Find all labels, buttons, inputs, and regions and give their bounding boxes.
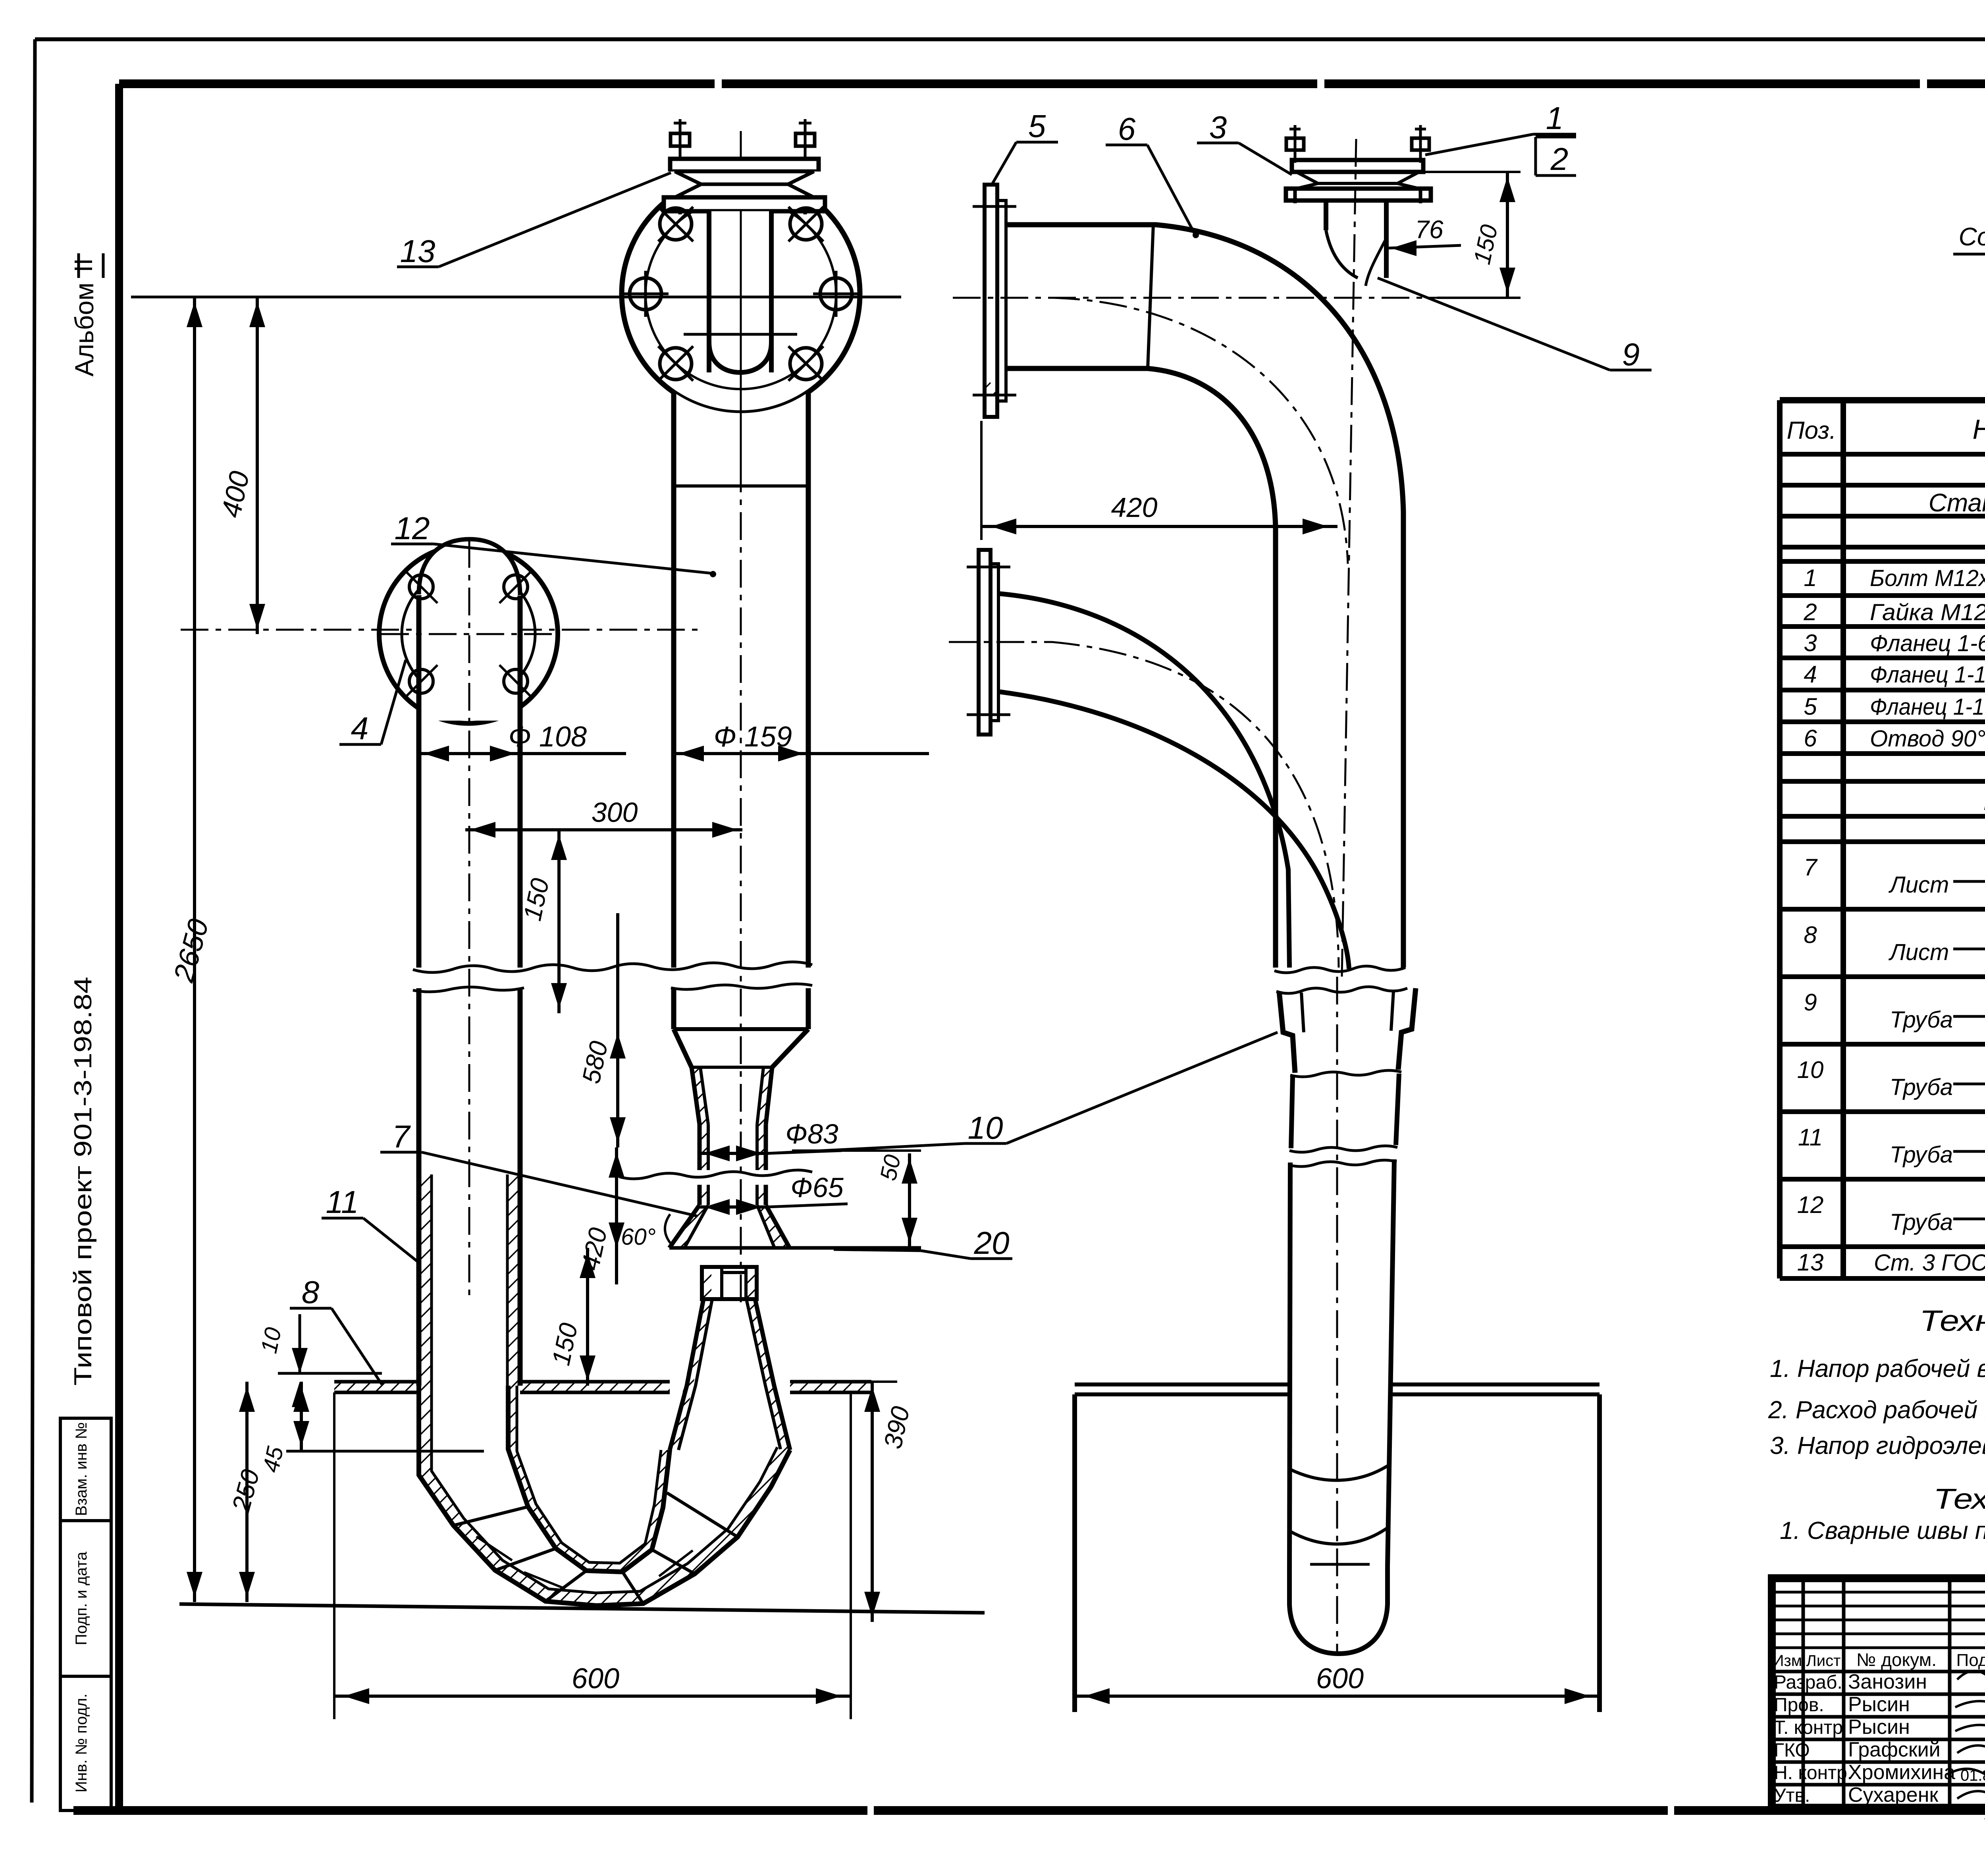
dim 76 xyxy=(1386,215,1461,256)
svg-text:Технические требования: Технические требования xyxy=(1933,1483,1985,1515)
svg-text:Изм: Изм xyxy=(1773,1652,1802,1670)
dim 10 plate thickness xyxy=(256,1314,382,1407)
front flange-4 disc xyxy=(379,539,560,723)
svg-text:Болт М12х 55.58.01. ГОСТ 7798-: Болт М12х 55.58.01. ГОСТ 7798- 70 xyxy=(1870,565,1985,591)
tech characteristics title xyxy=(1919,1304,1985,1337)
parts table header xyxy=(1787,401,1985,454)
front U-bend inner wall xyxy=(508,1386,670,1572)
svg-text:Материалы: Материалы xyxy=(1983,787,1985,816)
svg-text:600: 600 xyxy=(572,1663,619,1695)
front U-bend mitre seams xyxy=(453,1493,738,1604)
svg-text:76: 76 xyxy=(1415,215,1443,244)
svg-text:II: II xyxy=(69,258,98,272)
svg-text:11: 11 xyxy=(1798,1124,1823,1151)
dim 300 xyxy=(465,797,742,838)
front pipe break wavy xyxy=(413,962,812,992)
svg-text:Фланец 1-150-6 Ст25 ГОСТ 12820: Фланец 1-150-6 Ст25 ГОСТ 12820-80 xyxy=(1870,694,1985,720)
side joint wavy xyxy=(1274,966,1407,993)
leader 13 xyxy=(397,173,671,269)
side bend d108 inner xyxy=(998,692,1349,969)
side lower pipe xyxy=(1289,1074,1399,1566)
front view flange-4 centerline xyxy=(181,629,699,631)
svg-text:Подп.: Подп. xyxy=(1956,1650,1985,1670)
front nozzle throat lower xyxy=(700,1185,766,1205)
side lower pipe wavy break xyxy=(1289,1146,1397,1166)
side collar wavy bottom xyxy=(1290,1070,1401,1077)
side support plate xyxy=(1075,1384,1600,1394)
leader 3 xyxy=(1197,110,1292,175)
svg-text:Сопло: Сопло xyxy=(1959,222,1985,251)
svg-text:2. Расход рабочей воды, л/: 2. Расход рабочей воды, л/с xyxy=(1768,1396,1985,1424)
svg-text:10: 10 xyxy=(968,1110,1003,1145)
front nozzle break wavy xyxy=(619,1170,812,1179)
front pipe d159 walls xyxy=(674,391,808,1029)
svg-text:Стандартные изделия: Стандартные изделия xyxy=(1929,488,1985,517)
table row 13 xyxy=(1797,1246,1985,1276)
svg-text:Фланец 1-100-6 Ст25 ГОСТ12820-: Фланец 1-100-6 Ст25 ГОСТ12820-80 xyxy=(1870,662,1985,688)
svg-text:Техническая характеристика: Техническая характеристика xyxy=(1919,1304,1985,1337)
svg-text:10: 10 xyxy=(256,1325,286,1356)
tech req item 1 xyxy=(1780,1517,1985,1544)
nozzle detail label xyxy=(1953,222,1985,267)
svg-text:1. Сварные швы по ГОСТ 160: 1. Сварные швы по ГОСТ 16037- 80 xyxy=(1780,1517,1985,1544)
svg-text:6: 6 xyxy=(1804,725,1817,752)
svg-text:420: 420 xyxy=(1111,492,1158,523)
dim 600 side xyxy=(1075,1663,1600,1704)
svg-text:600: 600 xyxy=(1316,1663,1364,1695)
dim 45 xyxy=(258,1382,484,1475)
svg-text:13: 13 xyxy=(1797,1249,1824,1276)
svg-text:Труба: Труба xyxy=(1890,1074,1953,1100)
svg-text:Хромихина: Хромихина xyxy=(1848,1761,1955,1784)
svg-text:6: 6 xyxy=(1118,111,1136,147)
svg-text:3: 3 xyxy=(1209,110,1227,145)
svg-text:12: 12 xyxy=(395,511,430,546)
svg-text:Гайка М12-6Н. 5.01 ГОСТ 5915-: Гайка М12-6Н. 5.01 ГОСТ 5915-70 xyxy=(1870,600,1985,625)
dim 250 xyxy=(226,1382,265,1602)
dim 150 upper xyxy=(518,830,567,1013)
table section materials xyxy=(1971,787,1985,816)
tech char item 1 xyxy=(1770,1355,1985,1382)
dim 580 xyxy=(576,913,626,1147)
svg-text:Труба: Труба xyxy=(1890,1142,1953,1168)
side top flange pair xyxy=(1286,125,1431,203)
svg-text:2: 2 xyxy=(1803,599,1817,625)
svg-text:11: 11 xyxy=(326,1184,358,1220)
side flange-4 centerline xyxy=(949,641,1052,643)
tech requirements title xyxy=(1933,1483,1985,1515)
svg-text:Т. контр: Т. контр xyxy=(1774,1717,1843,1738)
dim f83 xyxy=(700,1118,842,1161)
leader 7 xyxy=(380,1119,698,1216)
leader 12 xyxy=(391,511,715,576)
svg-text:3: 3 xyxy=(1804,630,1817,656)
svg-text:Типовой проект 901-3-198.84: Типовой проект 901-3-198.84 xyxy=(69,977,97,1386)
svg-text:4: 4 xyxy=(1804,661,1817,688)
side pipe end arcs xyxy=(1289,1466,1388,1654)
leader 1 xyxy=(1425,100,1576,155)
title block left grid xyxy=(1772,1578,1985,1808)
front flange-4 bolts xyxy=(405,571,532,698)
svg-text:Лист: Лист xyxy=(1806,1652,1841,1670)
svg-text:Труба: Труба xyxy=(1890,1007,1953,1033)
front top flange pair bolts and plates xyxy=(664,119,825,214)
svg-text:12: 12 xyxy=(1797,1192,1824,1218)
side bend d108 outer xyxy=(998,594,1289,968)
side flange d100 xyxy=(967,550,1010,735)
dim f108 ext xyxy=(419,711,520,766)
svg-text:Подп. и дата: Подп. и дата xyxy=(73,1551,90,1645)
side bend d159 inner xyxy=(1006,368,1276,968)
front U-bend outer wall xyxy=(419,1386,790,1606)
front pipe liner hatch xyxy=(419,1174,520,1386)
side bend d159 outer xyxy=(1006,225,1403,968)
svg-text:8: 8 xyxy=(1804,922,1817,948)
table section standard xyxy=(1902,488,1985,517)
dim 2650 xyxy=(168,297,215,1602)
margin label project number xyxy=(69,977,97,1386)
svg-text:60°: 60° xyxy=(621,1224,656,1250)
leader 4 xyxy=(339,660,406,746)
svg-text:Занозин: Занозин xyxy=(1848,1670,1927,1693)
svg-text:Альбом: Альбом xyxy=(69,283,99,377)
side bend centerline arc xyxy=(1052,298,1348,564)
margin label Album II xyxy=(69,253,103,376)
front top reference line xyxy=(131,296,901,299)
svg-text:10: 10 xyxy=(1797,1057,1824,1083)
side bend seam xyxy=(1148,225,1153,368)
svg-text:1. Напор рабочей воды, МПа: 1. Напор рабочей воды, МПа xyxy=(1770,1355,1985,1382)
front flange disc xyxy=(622,175,860,413)
front pipe d108 walls xyxy=(419,595,520,1386)
dim 600 front xyxy=(334,1392,851,1719)
svg-text:Ф83: Ф83 xyxy=(785,1118,838,1149)
svg-text:Рысин: Рысин xyxy=(1848,1716,1910,1739)
margin stamp boxes xyxy=(60,1418,111,1810)
svg-text:50: 50 xyxy=(875,1153,906,1183)
dim 150 side xyxy=(1425,172,1521,298)
front ground baseline xyxy=(179,1604,985,1613)
svg-text:Взам. инв №: Взам. инв № xyxy=(73,1422,90,1516)
tech char item 2 xyxy=(1768,1396,1985,1424)
tech char item 3 xyxy=(1770,1432,1985,1460)
front nozzle flare 60deg xyxy=(669,1205,921,1248)
svg-text:Ст. 3 ГОСТ 380-71: Ст. 3 ГОСТ 380-71 xyxy=(1874,1250,1985,1276)
leader 11 xyxy=(322,1184,419,1263)
leader 20 front xyxy=(834,1225,1012,1261)
front reducer d159-d83 xyxy=(674,1029,808,1067)
front mixing chamber xyxy=(702,1267,757,1299)
leader 5 xyxy=(992,108,1058,183)
front nozzle pipe d83 xyxy=(692,1067,772,1170)
leader 8 xyxy=(290,1274,382,1384)
svg-text:8: 8 xyxy=(302,1274,320,1310)
dim 420 side xyxy=(981,421,1337,540)
svg-text:1: 1 xyxy=(1546,100,1564,136)
side centerline horizontal xyxy=(953,297,1445,299)
table standard rows xyxy=(1803,565,1985,752)
side collar 83x9 xyxy=(1279,988,1416,1073)
leader 10 front xyxy=(768,1032,1278,1153)
parts table grid xyxy=(1780,400,1985,1278)
svg-text:300: 300 xyxy=(592,797,638,828)
side pipe d76 inner arc xyxy=(1366,238,1386,286)
svg-text:Утв.: Утв. xyxy=(1774,1785,1810,1806)
side flange d150 xyxy=(973,185,1016,417)
svg-text:20: 20 xyxy=(974,1225,1010,1261)
svg-text:3. Напор гидроэлеватора, МПа: 3. Напор гидроэлеватора, МПа xyxy=(1770,1432,1985,1460)
svg-text:Поз.: Поз. xyxy=(1787,417,1837,444)
svg-text:Ф65: Ф65 xyxy=(790,1172,844,1203)
title block left text xyxy=(1773,1649,1985,1807)
side pit box xyxy=(1075,1394,1600,1712)
svg-text:ГКО: ГКО xyxy=(1774,1740,1810,1761)
front flange bolts xyxy=(622,207,859,381)
title block signatures xyxy=(1947,1671,1985,1823)
dim f159 xyxy=(674,721,929,762)
svg-text:Н. контр.: Н. контр. xyxy=(1774,1762,1852,1783)
leader 6 xyxy=(1106,111,1198,237)
leader 9 xyxy=(1378,278,1652,372)
dim 390 xyxy=(858,1382,915,1622)
svg-text:Труба: Труба xyxy=(1890,1209,1953,1235)
svg-text:7: 7 xyxy=(392,1119,411,1154)
side centerline vertical xyxy=(1337,139,1356,1652)
svg-text:Инв. № подл.: Инв. № подл. xyxy=(73,1693,90,1792)
dim 420 left xyxy=(576,1147,624,1284)
svg-text:Графский: Графский xyxy=(1848,1738,1941,1761)
svg-text:13: 13 xyxy=(400,233,436,269)
dim f65 xyxy=(700,1172,848,1215)
svg-text:Ф 159: Ф 159 xyxy=(714,721,792,753)
side pipe d76 xyxy=(1326,201,1386,278)
side bend d108 centerline xyxy=(1052,642,1339,968)
svg-text:Фланец 1-65-6 Ст25 ГОСТ12820-8: Фланец 1-65-6 Ст25 ГОСТ12820-80 xyxy=(1870,630,1985,656)
front diffuser cone xyxy=(670,1299,790,1450)
table material rows xyxy=(1797,853,1985,1251)
svg-text:Разраб.: Разраб. xyxy=(1774,1672,1842,1693)
front pipe d76 xyxy=(674,211,808,492)
leader 2 xyxy=(1536,137,1576,177)
dim f108 xyxy=(419,721,626,762)
dim 60deg xyxy=(621,1214,672,1250)
svg-text:2: 2 xyxy=(1550,141,1569,177)
svg-text:9: 9 xyxy=(1804,989,1817,1016)
svg-text:1: 1 xyxy=(1804,565,1817,591)
svg-text:Рысин: Рысин xyxy=(1848,1693,1910,1716)
svg-text:Сухаренк: Сухаренк xyxy=(1848,1783,1938,1807)
svg-text:5: 5 xyxy=(1804,693,1817,720)
svg-text:Лист: Лист xyxy=(1888,872,1949,898)
dim 50 right xyxy=(792,1151,921,1248)
svg-text:5: 5 xyxy=(1028,108,1046,144)
svg-text:№ докум.: № докум. xyxy=(1856,1649,1937,1670)
svg-text:Пров.: Пров. xyxy=(1774,1695,1824,1716)
svg-text:Лист: Лист xyxy=(1888,939,1949,965)
front view vertical centerline xyxy=(469,131,741,1302)
svg-text:Отвод 90° 169х4,5 ГОСТ 17375-: Отвод 90° 169х4,5 ГОСТ 17375- 77 xyxy=(1870,726,1985,752)
dim 400 xyxy=(215,297,265,634)
svg-text:9: 9 xyxy=(1622,337,1640,372)
dim 150 lower xyxy=(546,1248,595,1386)
front flange bolt circle xyxy=(646,199,836,389)
svg-text:4: 4 xyxy=(351,711,369,746)
svg-text:Наименование: Наименование xyxy=(1972,414,1985,445)
svg-text:7: 7 xyxy=(1804,854,1818,881)
front support plate xyxy=(334,1382,871,1392)
